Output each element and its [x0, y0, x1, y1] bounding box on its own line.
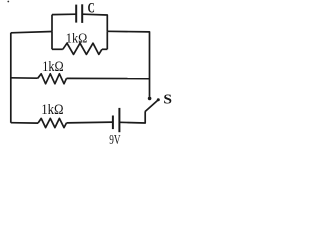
svg-text:S: S: [163, 93, 172, 108]
battery B1 long plate (positive): [118, 108, 120, 132]
capacitor C right plate: [81, 4, 83, 23]
wire top rail right segment and right vertical down to switch contact: [107, 31, 149, 97]
svg-text:9V: 9V: [109, 133, 120, 145]
svg-text:C: C: [88, 1, 95, 17]
svg-text:1kΩ: 1kΩ: [41, 102, 63, 118]
wire bottom rail left segment: [11, 122, 38, 124]
resistor R2 1kOhm middle zigzag: [38, 74, 67, 84]
wire left vertical: [10, 33, 12, 123]
box bottom edge right wire: [102, 48, 107, 50]
wire bottom rail resistor to battery: [67, 121, 113, 124]
box right edge lower half: [106, 31, 108, 49]
switch S blade: [145, 100, 158, 112]
box top edge left of capacitor: [52, 13, 76, 15]
wire middle rail left segment: [11, 77, 38, 79]
wire battery to bottom-right corner, up to switch blade: [119, 112, 145, 124]
capacitor C left plate: [75, 5, 77, 23]
wire middle rail right segment: [67, 77, 150, 79]
resistor R1 1kOhm top zigzag: [63, 43, 102, 54]
resistor R3 1kOhm bottom zigzag: [38, 118, 67, 127]
wire top rail left segment: [11, 32, 52, 33]
switch S upper contact dot: [148, 97, 152, 101]
noise dot top-left: [7, 1, 9, 3]
switch S blade tip blob: [157, 98, 160, 101]
box left edge of RC parallel block: [51, 15, 53, 32]
svg-text:1kΩ: 1kΩ: [66, 32, 88, 47]
svg-text:1kΩ: 1kΩ: [42, 59, 64, 75]
box left edge lower half: [51, 32, 53, 50]
box top edge right of capacitor: [82, 14, 107, 31]
box bottom edge left wire: [52, 48, 63, 50]
battery B1 short plate (negative): [112, 116, 114, 130]
